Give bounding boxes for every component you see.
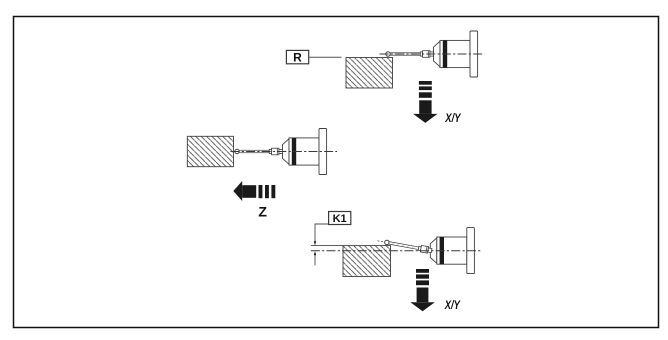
probe 2 body [283,129,327,175]
arrow X/Y 3 [410,269,434,311]
dimension tail line [314,255,316,265]
probe 2 stylus [235,148,283,155]
surface extension line [311,245,344,247]
probe 3 stylus (deflected) [384,239,432,254]
probe 3 body [430,228,474,274]
workpiece W3 [343,246,391,277]
centerline 2 [231,151,338,153]
label box R [286,50,308,64]
dimension arrow down [314,241,316,245]
label box K1 [329,212,351,225]
centerline 1 [380,53,485,55]
dimension arrow up [314,251,316,255]
probe 1 stylus [386,51,434,58]
arrow X/Y 1 [413,81,437,123]
svg-text:X/Y: X/Y [444,298,461,312]
workpiece W1 [346,58,393,89]
probe 1 body [434,31,478,77]
svg-text:K1: K1 [333,213,347,225]
svg-text:R: R [293,50,302,64]
svg-text:Z: Z [258,204,267,220]
leader line K1 [315,224,329,242]
arrow Z [233,181,275,201]
workpiece W2 [187,136,233,166]
deflected axis dots [377,241,384,242]
centerline 3 [311,250,481,252]
svg-text:X/Y: X/Y [445,111,462,125]
leader line R [309,56,342,58]
